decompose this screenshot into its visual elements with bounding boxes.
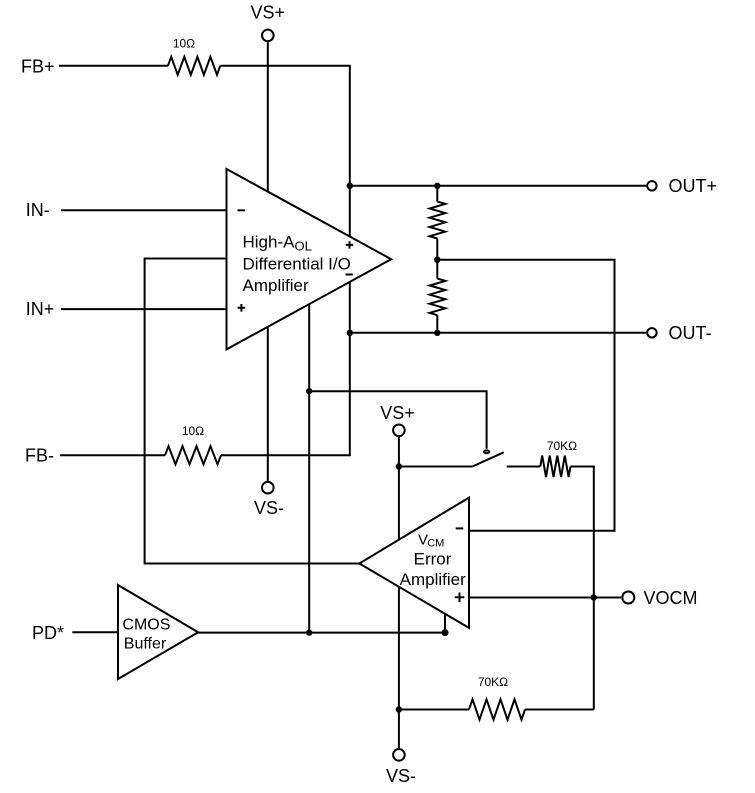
resistor R_FB- 10ohm zigzag bbox=[165, 446, 221, 464]
wire FB+ lead bbox=[59, 65, 168, 67]
wire amplifier U1 to VS- bbox=[267, 323, 269, 482]
svg-text:Differential I/O: Differential I/O bbox=[243, 255, 351, 274]
pin mark minus U2 inverting bbox=[456, 527, 464, 529]
junction buffer output/error amp PD stub bbox=[442, 629, 449, 636]
svg-text:CM: CM bbox=[427, 538, 444, 550]
svg-text:IN-: IN- bbox=[26, 200, 50, 220]
svg-text:VS-: VS- bbox=[386, 766, 416, 786]
label U1 title bbox=[243, 233, 351, 296]
wire OUT- net bbox=[350, 332, 646, 334]
svg-text:OUT+: OUT+ bbox=[669, 176, 718, 196]
label U3 title bbox=[122, 617, 170, 653]
resistor R1 divider upper zigzag bbox=[430, 202, 446, 239]
junction divider/OUT- bbox=[434, 330, 440, 336]
junction rail/OUT- bbox=[347, 330, 353, 336]
pin mark minus U1 OUT- bbox=[346, 274, 353, 276]
buffer U3 CMOS Buffer bbox=[118, 585, 198, 679]
wire R4 to VOCM rail bbox=[525, 709, 594, 711]
switch S1 contact ellipse bbox=[484, 450, 489, 453]
wire Vcm feedback from error amp to U1 mid input bbox=[145, 259, 362, 564]
terminal OUT- bbox=[647, 328, 656, 337]
pin mark plus U2 noninverting bbox=[455, 593, 465, 603]
terminal OUT+ bbox=[647, 181, 656, 190]
wire FB+ to output rail, rail upper segment bbox=[220, 66, 350, 240]
wire CMOS buffer output bbox=[198, 632, 445, 634]
wire OUT+ net bbox=[350, 185, 646, 187]
terminal VS+ top bbox=[262, 30, 274, 42]
wire PD* lead bbox=[72, 631, 118, 633]
svg-text:VS-: VS- bbox=[254, 498, 284, 518]
junction divider midpoint bbox=[434, 257, 440, 263]
resistor R4 70K zigzag bbox=[469, 699, 525, 719]
pin mark minus U1 IN- bbox=[238, 209, 245, 211]
svg-text:VOCM: VOCM bbox=[644, 588, 698, 608]
svg-text:10Ω: 10Ω bbox=[173, 37, 195, 51]
wire error amp noninverting input to VOCM terminal bbox=[469, 597, 621, 599]
svg-text:FB-: FB- bbox=[25, 446, 54, 466]
resistor R2 divider lower zigzag bbox=[430, 279, 446, 316]
wire PD rail from U1 down to buffer output net bbox=[308, 296, 310, 633]
switch S1 lever bbox=[472, 452, 503, 466]
svg-text:70KΩ: 70KΩ bbox=[547, 439, 577, 453]
resistor R_FB+ 10ohm zigzag bbox=[168, 57, 220, 75]
junction VS+/switch wire bbox=[396, 463, 402, 469]
op-amp U2 Vcm Error Amplifier bbox=[359, 498, 469, 628]
wire VS+ to error amp U2 bbox=[398, 436, 400, 542]
label U2 title bbox=[400, 532, 466, 589]
terminal VOCM bbox=[622, 592, 634, 604]
pin mark plus U1 IN+ bbox=[238, 304, 246, 312]
svg-text:CMOS: CMOS bbox=[122, 617, 170, 634]
svg-text:10Ω: 10Ω bbox=[182, 424, 204, 438]
wire divider midpoint to error amp inverting input bbox=[437, 260, 614, 531]
svg-text:PD*: PD* bbox=[32, 623, 64, 643]
svg-text:VS+: VS+ bbox=[380, 403, 415, 423]
svg-text:IN+: IN+ bbox=[26, 299, 55, 319]
wire PD branch to switch S1 bbox=[309, 391, 486, 449]
wire output rail lower segment to FB- bbox=[221, 278, 350, 455]
wire VS+ node to switch S1 bbox=[399, 466, 473, 468]
junction PD rail/buffer output bbox=[306, 629, 312, 635]
wire switch S1 to R3 bbox=[507, 466, 541, 468]
wire PD stub into error amp bbox=[444, 605, 446, 633]
svg-text:VS+: VS+ bbox=[251, 3, 286, 23]
junction VOCM node bbox=[591, 594, 597, 600]
terminal VS- bottom bbox=[393, 749, 405, 761]
wire R3 to VOCM node bbox=[571, 467, 594, 710]
terminal VS- middle bbox=[262, 482, 274, 494]
wire VS- node to R4 bbox=[399, 709, 469, 711]
junction PD rail/switch branch bbox=[306, 388, 312, 394]
wire divider top stub bbox=[436, 186, 438, 202]
wire divider bottom stub bbox=[436, 315, 438, 333]
junction divider/OUT+ bbox=[434, 183, 440, 189]
svg-text:FB+: FB+ bbox=[21, 56, 55, 76]
junction VS- node/R4 bbox=[396, 706, 402, 712]
pin mark plus U1 OUT+ bbox=[346, 241, 353, 248]
op-amp U1 High-AOL Differential I/O Amplifier bbox=[227, 169, 392, 349]
resistor R3 70K zigzag bbox=[540, 456, 570, 478]
junction rail/OUT+ bbox=[347, 183, 353, 189]
svg-text:Amplifier: Amplifier bbox=[400, 570, 466, 589]
svg-text:OUT-: OUT- bbox=[669, 323, 712, 343]
wire error amp U2 to VS- bottom bbox=[398, 583, 400, 749]
svg-text:Amplifier: Amplifier bbox=[243, 276, 309, 295]
wire divider mid stub bbox=[436, 239, 438, 279]
terminal VS+ error amp bbox=[393, 425, 405, 437]
svg-text:Buffer: Buffer bbox=[124, 636, 167, 653]
svg-text:Error: Error bbox=[414, 549, 452, 568]
wire IN+ lead bbox=[61, 308, 227, 310]
wire IN- lead bbox=[61, 209, 227, 211]
wire FB- lead bbox=[60, 454, 165, 456]
wire VS+ to amplifier U1 bbox=[267, 42, 269, 195]
svg-text:70KΩ: 70KΩ bbox=[478, 675, 508, 689]
